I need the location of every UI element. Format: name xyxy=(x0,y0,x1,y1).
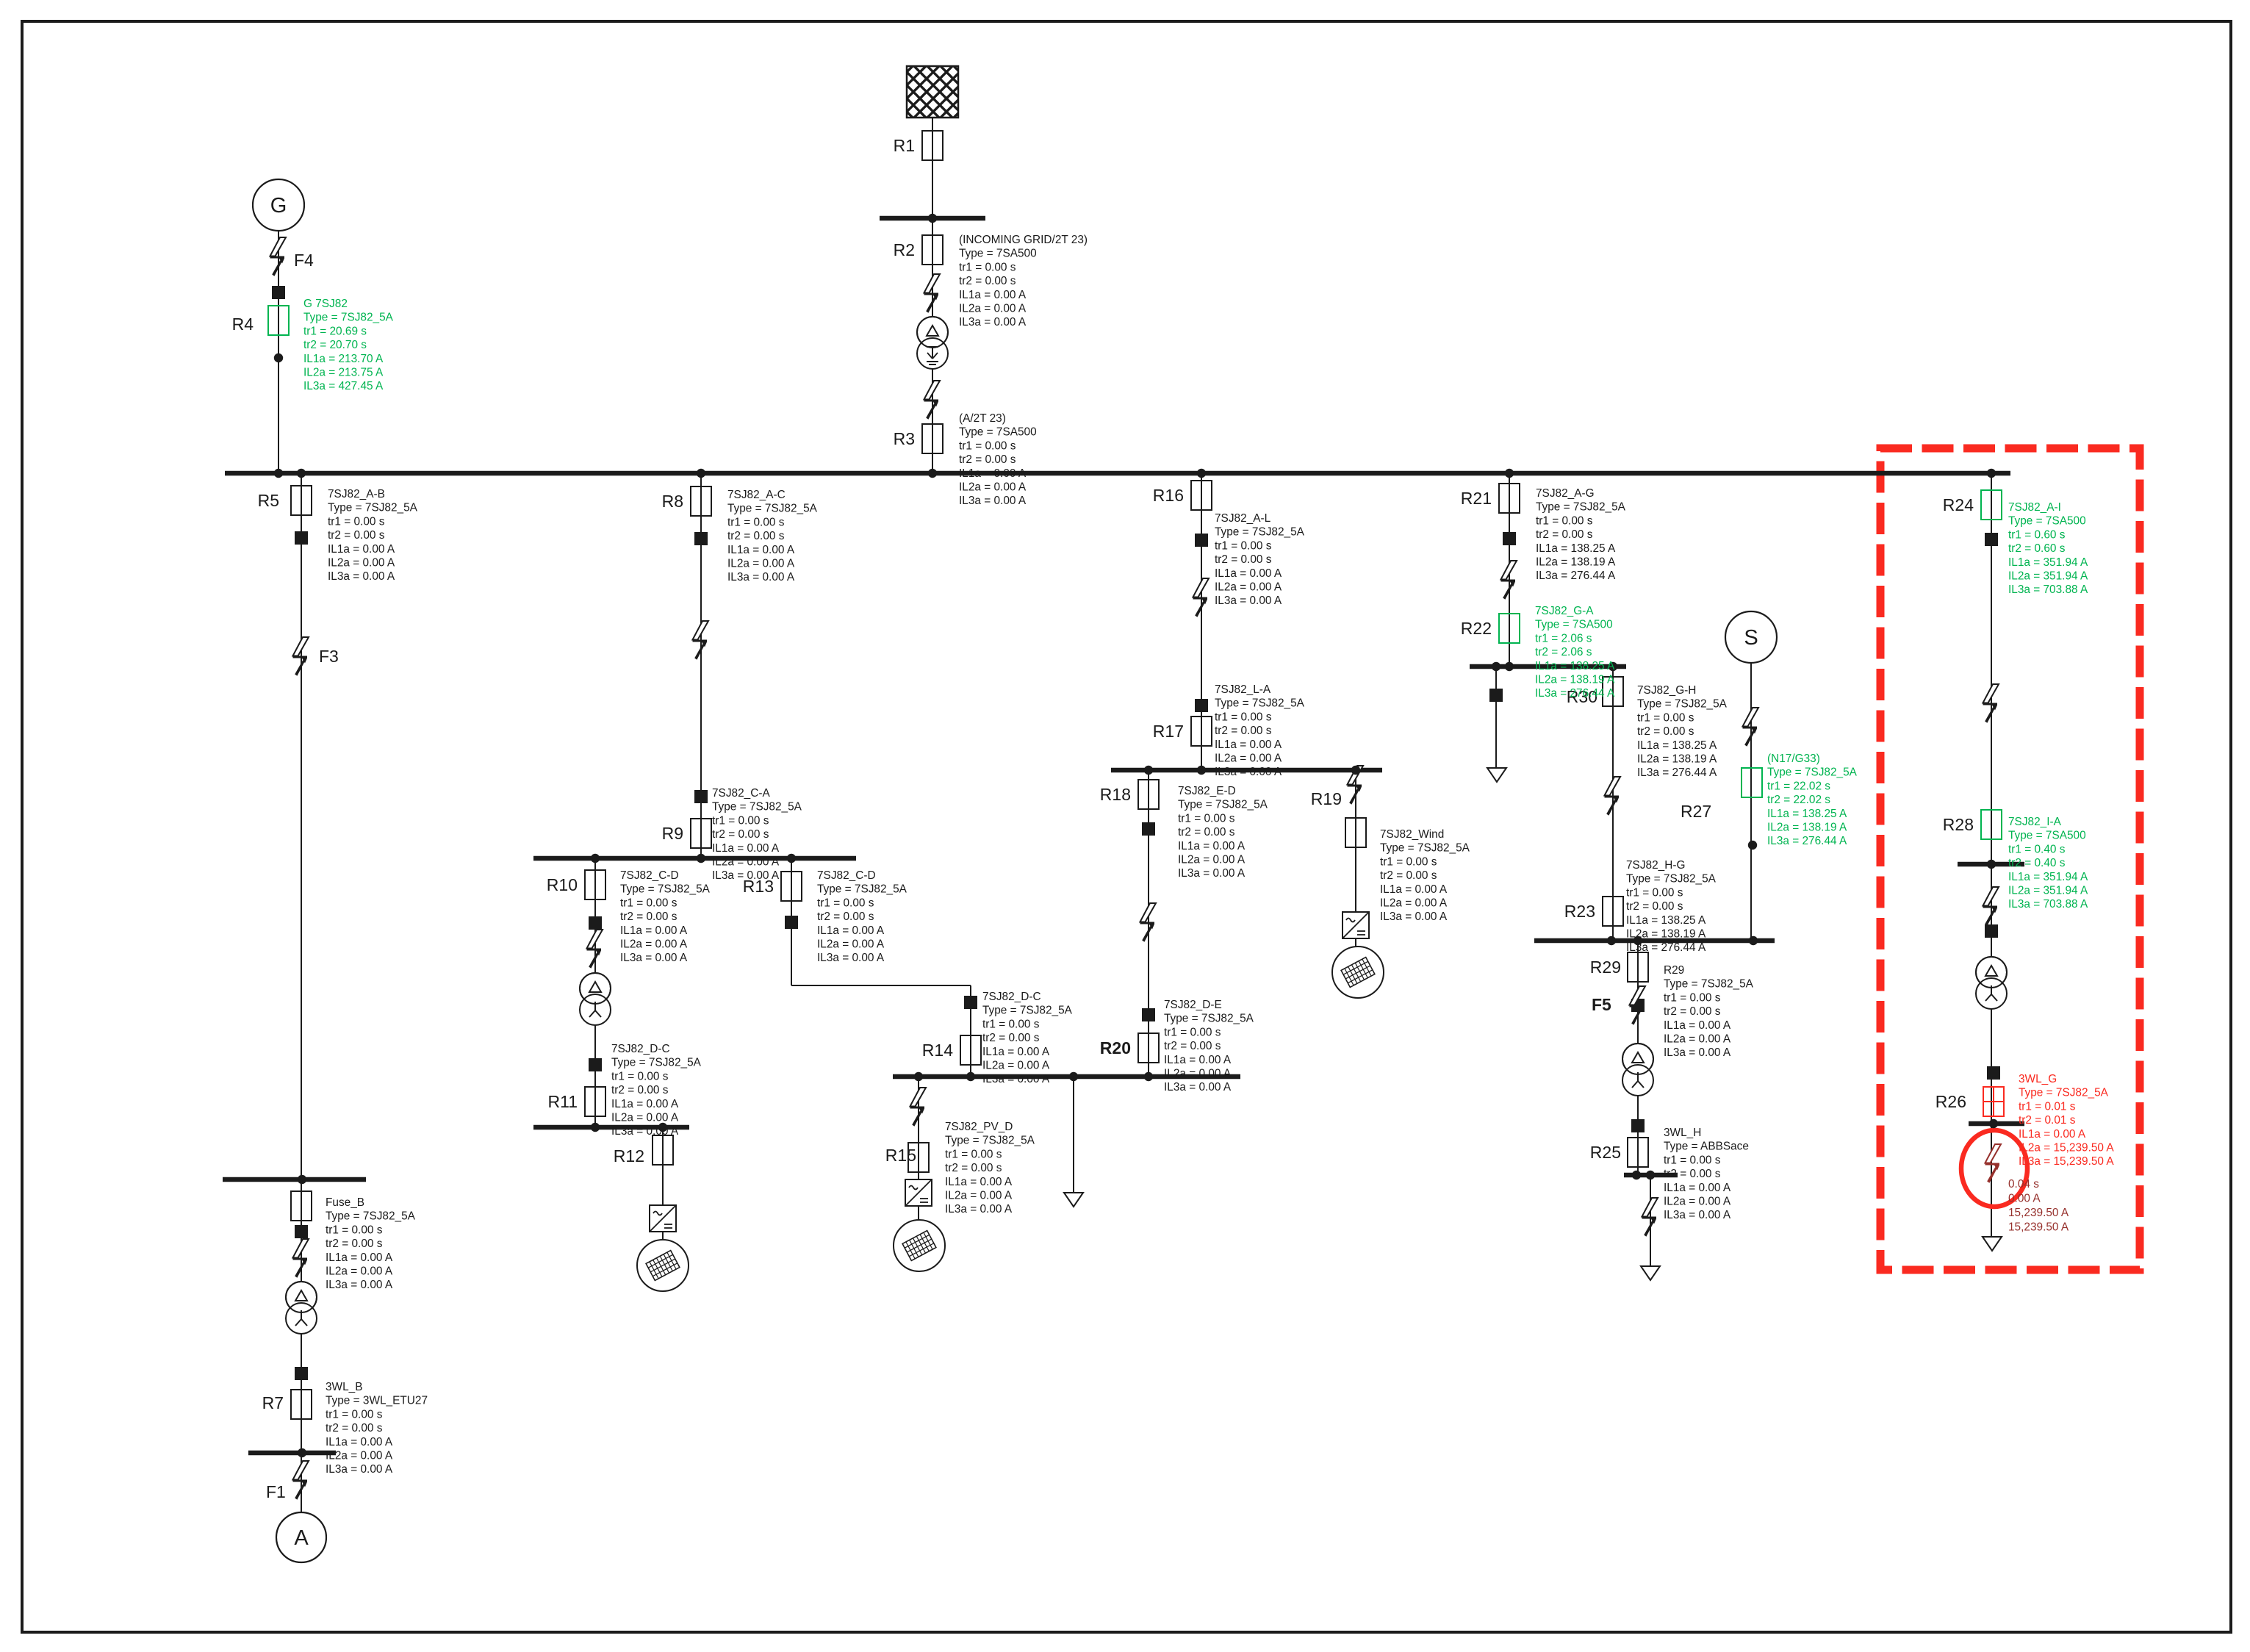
svg-text:tr2 = 0.00 s: tr2 = 0.00 s xyxy=(1637,725,1694,738)
svg-text:IL1a = 0.00 A: IL1a = 0.00 A xyxy=(817,924,885,937)
svg-text:R27: R27 xyxy=(1681,802,1711,821)
svg-text:IL1a = 138.25 A: IL1a = 138.25 A xyxy=(1637,739,1717,752)
svg-text:IL2a = 0.00 A: IL2a = 0.00 A xyxy=(1178,854,1246,866)
svg-text:R3: R3 xyxy=(894,429,915,448)
svg-text:7SJ82_A-G: 7SJ82_A-G xyxy=(1536,487,1595,500)
svg-text:R29: R29 xyxy=(1590,958,1621,977)
svg-text:S: S xyxy=(1744,626,1758,650)
svg-text:G 7SJ82: G 7SJ82 xyxy=(303,298,348,310)
svg-text:tr2 = 0.00 s: tr2 = 0.00 s xyxy=(611,1084,669,1096)
svg-text:IL3a = 0.00 A: IL3a = 0.00 A xyxy=(611,1125,679,1138)
svg-text:tr1 = 0.00 s: tr1 = 0.00 s xyxy=(326,1408,383,1421)
svg-text:7SJ82_D-E: 7SJ82_D-E xyxy=(1164,999,1222,1011)
svg-text:R10: R10 xyxy=(547,875,578,894)
svg-text:tr2 = 0.00 s: tr2 = 0.00 s xyxy=(326,1422,383,1434)
svg-text:tr2 = 0.00 s: tr2 = 0.00 s xyxy=(1664,1168,1721,1180)
svg-text:Type = 7SJ82_5A: Type = 7SJ82_5A xyxy=(1626,873,1717,886)
svg-text:tr1 = 0.00 s: tr1 = 0.00 s xyxy=(1664,1154,1721,1166)
svg-text:tr1 = 2.06 s: tr1 = 2.06 s xyxy=(1535,632,1592,644)
svg-text:IL2a = 0.00 A: IL2a = 0.00 A xyxy=(1664,1033,1731,1046)
svg-text:R11: R11 xyxy=(548,1092,578,1111)
svg-text:IL3a = 0.00 A: IL3a = 0.00 A xyxy=(326,1279,393,1291)
svg-text:tr1 = 0.00 s: tr1 = 0.00 s xyxy=(1664,991,1721,1004)
svg-text:Type = 7SJ82_5A: Type = 7SJ82_5A xyxy=(945,1135,1035,1147)
svg-text:Type = 7SA500: Type = 7SA500 xyxy=(2008,515,2086,528)
svg-text:IL1a = 0.00 A: IL1a = 0.00 A xyxy=(727,544,795,556)
svg-text:tr2 = 2.06 s: tr2 = 2.06 s xyxy=(1535,646,1592,658)
svg-text:IL3a = 0.00 A: IL3a = 0.00 A xyxy=(982,1073,1050,1085)
svg-text:IL1a = 138.25 A: IL1a = 138.25 A xyxy=(1535,660,1615,672)
svg-text:tr2 = 20.70 s: tr2 = 20.70 s xyxy=(303,339,367,351)
svg-text:7SJ82_A-B: 7SJ82_A-B xyxy=(328,488,385,500)
svg-text:tr1 = 22.02 s: tr1 = 22.02 s xyxy=(1767,780,1830,792)
svg-text:Type = 7SJ82_5A: Type = 7SJ82_5A xyxy=(1215,697,1305,710)
svg-text:7SJ82_A-I: 7SJ82_A-I xyxy=(2008,501,2061,514)
svg-text:IL2a = 138.19 A: IL2a = 138.19 A xyxy=(1626,928,1706,941)
svg-text:7SJ82_I-A: 7SJ82_I-A xyxy=(2008,816,2062,828)
svg-text:tr1 = 0.00 s: tr1 = 0.00 s xyxy=(328,515,385,528)
svg-text:IL2a = 351.94 A: IL2a = 351.94 A xyxy=(2008,570,2088,583)
svg-text:IL2a = 0.00 A: IL2a = 0.00 A xyxy=(1664,1196,1731,1208)
svg-text:IL3a = 427.45 A: IL3a = 427.45 A xyxy=(303,380,384,392)
svg-text:R18: R18 xyxy=(1100,785,1131,804)
svg-text:IL3a = 703.88 A: IL3a = 703.88 A xyxy=(2008,583,2088,596)
svg-text:(N17/G33): (N17/G33) xyxy=(1767,753,1820,765)
svg-text:IL2a = 0.00 A: IL2a = 0.00 A xyxy=(712,856,780,869)
svg-text:IL1a = 0.00 A: IL1a = 0.00 A xyxy=(945,1176,1013,1188)
svg-text:Type = 7SA500: Type = 7SA500 xyxy=(2008,830,2086,842)
svg-text:R26: R26 xyxy=(1935,1092,1966,1111)
svg-text:tr1 = 0.00 s: tr1 = 0.00 s xyxy=(326,1224,383,1236)
svg-text:IL3a = 0.00 A: IL3a = 0.00 A xyxy=(1664,1046,1731,1059)
svg-text:tr1 = 0.00 s: tr1 = 0.00 s xyxy=(1626,886,1683,899)
svg-text:IL2a = 213.75 A: IL2a = 213.75 A xyxy=(303,367,384,379)
svg-text:G: G xyxy=(270,194,287,218)
svg-text:tr1 = 20.69 s: tr1 = 20.69 s xyxy=(303,325,367,337)
svg-text:tr1 = 0.00 s: tr1 = 0.00 s xyxy=(611,1070,669,1082)
svg-text:(A/2T 23): (A/2T 23) xyxy=(959,412,1006,425)
svg-text:IL1a = 0.00 A: IL1a = 0.00 A xyxy=(611,1098,679,1110)
svg-text:IL3a = 0.00 A: IL3a = 0.00 A xyxy=(959,495,1027,507)
svg-text:(INCOMING GRID/2T 23): (INCOMING GRID/2T 23) xyxy=(959,234,1088,246)
svg-text:7SJ82_PV_D: 7SJ82_PV_D xyxy=(945,1121,1013,1133)
svg-text:3WL_H: 3WL_H xyxy=(1664,1127,1701,1139)
svg-text:IL2a = 0.00 A: IL2a = 0.00 A xyxy=(1215,753,1282,765)
svg-text:tr1 = 0.00 s: tr1 = 0.00 s xyxy=(959,261,1016,273)
svg-text:7SJ82_Wind: 7SJ82_Wind xyxy=(1380,828,1444,841)
svg-text:Type = 7SJ82_5A: Type = 7SJ82_5A xyxy=(1664,978,1754,991)
svg-text:IL3a = 276.44 A: IL3a = 276.44 A xyxy=(1535,687,1615,700)
svg-text:tr1 = 0.00 s: tr1 = 0.00 s xyxy=(727,516,785,528)
svg-text:IL1a = 0.00 A: IL1a = 0.00 A xyxy=(712,842,780,855)
svg-text:Type = 7SJ82_5A: Type = 7SJ82_5A xyxy=(1164,1013,1254,1025)
svg-text:IL3a = 276.44 A: IL3a = 276.44 A xyxy=(1767,835,1847,847)
svg-text:tr1 = 0.00 s: tr1 = 0.00 s xyxy=(1536,514,1593,527)
svg-text:R17: R17 xyxy=(1153,722,1184,741)
svg-text:tr2 = 0.00 s: tr2 = 0.00 s xyxy=(1664,1005,1721,1018)
svg-text:IL1a = 0.00 A: IL1a = 0.00 A xyxy=(1178,840,1246,852)
svg-text:tr1 = 0.00 s: tr1 = 0.00 s xyxy=(945,1148,1002,1160)
svg-text:R22: R22 xyxy=(1461,619,1492,638)
svg-text:Fuse_B: Fuse_B xyxy=(326,1196,364,1209)
svg-text:15,239.50 A: 15,239.50 A xyxy=(2008,1207,2069,1219)
svg-text:IL1a = 0.00 A: IL1a = 0.00 A xyxy=(959,289,1027,301)
svg-text:IL2a = 138.19 A: IL2a = 138.19 A xyxy=(1536,556,1616,569)
svg-text:R23: R23 xyxy=(1564,902,1595,921)
svg-text:Type = 7SJ82_5A: Type = 7SJ82_5A xyxy=(303,312,394,324)
svg-text:Type = 3WL_ETU27: Type = 3WL_ETU27 xyxy=(326,1395,428,1407)
svg-text:tr2 = 0.60 s: tr2 = 0.60 s xyxy=(2008,542,2066,555)
svg-text:tr2 = 0.00 s: tr2 = 0.00 s xyxy=(1215,725,1272,737)
svg-text:IL1a = 0.00 A: IL1a = 0.00 A xyxy=(328,543,395,556)
svg-text:R2: R2 xyxy=(894,240,915,259)
svg-text:IL3a = 0.00 A: IL3a = 0.00 A xyxy=(1178,867,1246,880)
svg-text:IL1a = 0.00 A: IL1a = 0.00 A xyxy=(2019,1128,2086,1141)
svg-text:IL1a = 0.00 A: IL1a = 0.00 A xyxy=(1664,1019,1731,1032)
svg-text:tr2 = 0.00 s: tr2 = 0.00 s xyxy=(817,911,874,923)
svg-text:IL1a = 138.25 A: IL1a = 138.25 A xyxy=(1626,914,1706,927)
svg-text:tr2 = 0.00 s: tr2 = 0.00 s xyxy=(620,911,677,923)
svg-text:Type = 7SJ82_5A: Type = 7SJ82_5A xyxy=(2019,1087,2109,1099)
svg-text:R7: R7 xyxy=(262,1393,284,1412)
svg-text:tr2 = 0.00 s: tr2 = 0.00 s xyxy=(945,1162,1002,1174)
svg-text:7SJ82_D-C: 7SJ82_D-C xyxy=(982,991,1041,1003)
svg-text:IL2a = 0.00 A: IL2a = 0.00 A xyxy=(1215,581,1282,594)
svg-text:IL1a = 0.00 A: IL1a = 0.00 A xyxy=(1664,1182,1731,1194)
svg-text:tr2 = 0.00 s: tr2 = 0.00 s xyxy=(326,1238,383,1250)
svg-text:Type = 7SJ82_5A: Type = 7SJ82_5A xyxy=(611,1057,702,1069)
svg-text:IL1a = 213.70 A: IL1a = 213.70 A xyxy=(303,353,384,365)
svg-text:tr1 = 0.00 s: tr1 = 0.00 s xyxy=(959,439,1016,452)
svg-text:IL2a = 0.00 A: IL2a = 0.00 A xyxy=(727,558,795,570)
svg-text:7SJ82_A-L: 7SJ82_A-L xyxy=(1215,512,1271,525)
svg-text:IL2a = 351.94 A: IL2a = 351.94 A xyxy=(2008,885,2088,897)
svg-text:IL1a = 0.00 A: IL1a = 0.00 A xyxy=(1164,1054,1232,1066)
svg-text:Type = 7SJ82_5A: Type = 7SJ82_5A xyxy=(328,502,418,514)
svg-text:IL3a = 276.44 A: IL3a = 276.44 A xyxy=(1536,570,1616,582)
svg-text:tr2 = 0.00 s: tr2 = 0.00 s xyxy=(1536,528,1593,541)
svg-text:IL2a = 138.19 A: IL2a = 138.19 A xyxy=(1767,822,1847,834)
svg-text:IL3a = 15,239.50 A: IL3a = 15,239.50 A xyxy=(2019,1155,2114,1168)
svg-text:R19: R19 xyxy=(1311,789,1342,808)
svg-text:Type = 7SJ82_5A: Type = 7SJ82_5A xyxy=(326,1210,416,1223)
svg-text:IL1a = 351.94 A: IL1a = 351.94 A xyxy=(2008,556,2088,569)
svg-text:Type = 7SJ82_5A: Type = 7SJ82_5A xyxy=(1178,799,1268,811)
svg-text:IL2a = 0.00 A: IL2a = 0.00 A xyxy=(620,938,688,951)
svg-text:IL1a = 138.25 A: IL1a = 138.25 A xyxy=(1536,542,1616,555)
svg-text:Type = 7SJ82_5A: Type = 7SJ82_5A xyxy=(1380,842,1470,855)
svg-text:Type = 7SJ82_5A: Type = 7SJ82_5A xyxy=(1215,526,1305,539)
svg-text:7SJ82_H-G: 7SJ82_H-G xyxy=(1626,859,1685,872)
svg-text:Type = 7SJ82_5A: Type = 7SJ82_5A xyxy=(727,503,818,515)
svg-text:7SJ82_L-A: 7SJ82_L-A xyxy=(1215,683,1271,696)
svg-text:IL3a = 276.44 A: IL3a = 276.44 A xyxy=(1626,941,1706,954)
svg-text:IL1a = 351.94 A: IL1a = 351.94 A xyxy=(2008,871,2088,883)
svg-text:IL2a = 15,239.50 A: IL2a = 15,239.50 A xyxy=(2019,1142,2114,1154)
svg-text:IL2a = 0.00 A: IL2a = 0.00 A xyxy=(982,1060,1050,1072)
svg-text:IL3a = 0.00 A: IL3a = 0.00 A xyxy=(959,316,1027,328)
svg-text:tr1 = 0.00 s: tr1 = 0.00 s xyxy=(817,897,874,909)
svg-text:IL3a = 0.00 A: IL3a = 0.00 A xyxy=(727,571,795,583)
svg-text:Type = 7SJ82_5A: Type = 7SJ82_5A xyxy=(1637,698,1728,711)
svg-text:tr1 = 0.00 s: tr1 = 0.00 s xyxy=(982,1018,1040,1030)
svg-text:IL3a = 0.00 A: IL3a = 0.00 A xyxy=(1664,1209,1731,1221)
svg-text:IL1a = 0.00 A: IL1a = 0.00 A xyxy=(1215,567,1282,580)
svg-text:15,239.50 A: 15,239.50 A xyxy=(2008,1221,2069,1234)
svg-text:7SJ82_C-D: 7SJ82_C-D xyxy=(817,869,876,882)
svg-text:IL3a = 0.00 A: IL3a = 0.00 A xyxy=(328,570,395,583)
svg-text:F3: F3 xyxy=(319,647,339,666)
svg-text:IL2a = 0.00 A: IL2a = 0.00 A xyxy=(1380,897,1448,910)
svg-text:IL1a = 0.00 A: IL1a = 0.00 A xyxy=(1215,739,1282,751)
svg-text:R1: R1 xyxy=(894,136,915,155)
svg-text:tr1 = 0.00 s: tr1 = 0.00 s xyxy=(1178,812,1235,825)
svg-text:IL2a = 0.00 A: IL2a = 0.00 A xyxy=(817,938,885,951)
svg-text:0.00 A: 0.00 A xyxy=(2008,1193,2041,1205)
svg-text:IL3a = 0.00 A: IL3a = 0.00 A xyxy=(945,1203,1013,1215)
svg-text:Type = 7SJ82_5A: Type = 7SJ82_5A xyxy=(712,801,802,814)
svg-text:IL1a = 0.00 A: IL1a = 0.00 A xyxy=(326,1251,393,1264)
svg-text:R24: R24 xyxy=(1943,495,1974,514)
svg-text:IL3a = 0.00 A: IL3a = 0.00 A xyxy=(1215,766,1282,778)
svg-text:IL3a = 703.88 A: IL3a = 703.88 A xyxy=(2008,898,2088,911)
svg-text:Type = 7SA500: Type = 7SA500 xyxy=(959,248,1037,260)
svg-text:Type = 7SA500: Type = 7SA500 xyxy=(959,426,1037,439)
svg-text:tr2 = 0.00 s: tr2 = 0.00 s xyxy=(959,453,1016,466)
svg-text:tr1 = 0.01 s: tr1 = 0.01 s xyxy=(2019,1100,2076,1113)
svg-text:IL2a = 0.00 A: IL2a = 0.00 A xyxy=(959,303,1027,315)
svg-text:IL1a = 0.00 A: IL1a = 0.00 A xyxy=(326,1436,393,1448)
svg-text:IL3a = 0.00 A: IL3a = 0.00 A xyxy=(1215,595,1282,607)
svg-text:Type = ABBSace: Type = ABBSace xyxy=(1664,1141,1749,1153)
svg-text:tr1 = 0.00 s: tr1 = 0.00 s xyxy=(1215,711,1272,723)
svg-text:tr2 = 0.40 s: tr2 = 0.40 s xyxy=(2008,857,2066,869)
svg-text:R8: R8 xyxy=(662,492,683,511)
svg-text:tr2 = 0.00 s: tr2 = 0.00 s xyxy=(1164,1040,1221,1052)
svg-text:tr1 = 0.40 s: tr1 = 0.40 s xyxy=(2008,843,2066,855)
svg-text:IL3a = 0.00 A: IL3a = 0.00 A xyxy=(1380,911,1448,923)
svg-text:Type = 7SJ82_5A: Type = 7SJ82_5A xyxy=(817,883,907,896)
svg-text:tr2 = 0.00 s: tr2 = 0.00 s xyxy=(982,1032,1040,1044)
svg-text:R28: R28 xyxy=(1943,815,1974,834)
svg-text:tr1 = 0.00 s: tr1 = 0.00 s xyxy=(1215,539,1272,552)
svg-text:7SJ82_G-H: 7SJ82_G-H xyxy=(1637,684,1696,697)
svg-text:7SJ82_D-C: 7SJ82_D-C xyxy=(611,1043,670,1055)
svg-text:IL3a = 0.00 A: IL3a = 0.00 A xyxy=(712,869,780,882)
svg-text:R20: R20 xyxy=(1100,1038,1131,1057)
svg-text:IL3a = 0.00 A: IL3a = 0.00 A xyxy=(817,952,885,964)
svg-text:tr1 = 0.00 s: tr1 = 0.00 s xyxy=(712,814,769,827)
svg-text:tr1 = 0.00 s: tr1 = 0.00 s xyxy=(1164,1026,1221,1038)
svg-text:R5: R5 xyxy=(258,491,279,510)
svg-text:A: A xyxy=(294,1526,309,1550)
svg-text:tr1 = 0.00 s: tr1 = 0.00 s xyxy=(620,897,677,909)
svg-text:3WL_B: 3WL_B xyxy=(326,1381,362,1393)
svg-text:IL3a = 0.00 A: IL3a = 0.00 A xyxy=(1164,1081,1232,1093)
svg-text:R29: R29 xyxy=(1664,964,1684,977)
svg-text:tr1 = 0.60 s: tr1 = 0.60 s xyxy=(2008,528,2066,541)
svg-text:0.04 s: 0.04 s xyxy=(2008,1178,2039,1190)
svg-text:IL2a = 0.00 A: IL2a = 0.00 A xyxy=(959,481,1027,494)
svg-text:F4: F4 xyxy=(294,251,314,270)
svg-text:IL2a = 138.19 A: IL2a = 138.19 A xyxy=(1535,674,1615,686)
svg-text:F5: F5 xyxy=(1592,995,1611,1014)
svg-text:R14: R14 xyxy=(922,1041,953,1060)
svg-text:IL2a = 0.00 A: IL2a = 0.00 A xyxy=(328,557,395,570)
svg-text:7SJ82_G-A: 7SJ82_G-A xyxy=(1535,605,1594,617)
svg-text:IL2a = 138.19 A: IL2a = 138.19 A xyxy=(1637,753,1717,766)
svg-text:R25: R25 xyxy=(1590,1143,1621,1162)
svg-text:Type = 7SJ82_5A: Type = 7SJ82_5A xyxy=(982,1005,1073,1017)
svg-text:Type = 7SJ82_5A: Type = 7SJ82_5A xyxy=(620,883,711,896)
svg-text:IL3a = 0.00 A: IL3a = 0.00 A xyxy=(620,952,688,964)
svg-text:7SJ82_C-D: 7SJ82_C-D xyxy=(620,869,679,882)
svg-text:7SJ82_E-D: 7SJ82_E-D xyxy=(1178,785,1236,797)
svg-text:tr1 = 0.00 s: tr1 = 0.00 s xyxy=(1380,855,1437,868)
svg-text:IL2a = 0.00 A: IL2a = 0.00 A xyxy=(326,1265,393,1278)
svg-text:tr2 = 0.00 s: tr2 = 0.00 s xyxy=(712,828,769,841)
svg-text:tr2 = 0.00 s: tr2 = 0.00 s xyxy=(1215,553,1272,566)
svg-text:Type = 7SJ82_5A: Type = 7SJ82_5A xyxy=(1536,501,1626,514)
svg-text:R4: R4 xyxy=(232,315,254,334)
svg-text:IL1a = 0.00 A: IL1a = 0.00 A xyxy=(1380,883,1448,896)
svg-text:IL2a = 0.00 A: IL2a = 0.00 A xyxy=(326,1450,393,1462)
svg-text:IL2a = 0.00 A: IL2a = 0.00 A xyxy=(945,1190,1013,1202)
svg-text:tr2 = 0.00 s: tr2 = 0.00 s xyxy=(1626,900,1683,913)
svg-text:IL1a = 138.25 A: IL1a = 138.25 A xyxy=(1767,808,1847,820)
svg-text:tr2 = 0.01 s: tr2 = 0.01 s xyxy=(2019,1114,2076,1127)
svg-text:R12: R12 xyxy=(614,1146,644,1166)
svg-text:R16: R16 xyxy=(1153,486,1184,505)
svg-text:R15: R15 xyxy=(885,1146,916,1165)
svg-text:IL1a = 0.00 A: IL1a = 0.00 A xyxy=(982,1046,1050,1058)
svg-text:F1: F1 xyxy=(266,1482,286,1501)
svg-text:Type = 7SJ82_5A: Type = 7SJ82_5A xyxy=(1767,766,1858,779)
svg-text:7SJ82_C-A: 7SJ82_C-A xyxy=(712,787,770,800)
svg-text:tr2 = 0.00 s: tr2 = 0.00 s xyxy=(959,275,1016,287)
svg-text:R9: R9 xyxy=(662,824,683,843)
svg-text:tr2 = 22.02 s: tr2 = 22.02 s xyxy=(1767,794,1830,806)
svg-text:IL1a = 0.00 A: IL1a = 0.00 A xyxy=(620,924,688,937)
svg-text:tr2 = 0.00 s: tr2 = 0.00 s xyxy=(1178,826,1235,838)
svg-text:Type = 7SA500: Type = 7SA500 xyxy=(1535,619,1613,631)
svg-text:tr2 = 0.00 s: tr2 = 0.00 s xyxy=(1380,869,1437,882)
svg-text:IL3a = 276.44 A: IL3a = 276.44 A xyxy=(1637,766,1717,779)
svg-text:7SJ82_A-C: 7SJ82_A-C xyxy=(727,489,786,501)
svg-text:IL2a = 0.00 A: IL2a = 0.00 A xyxy=(1164,1068,1232,1080)
svg-text:IL1a = 0.00 A: IL1a = 0.00 A xyxy=(959,467,1027,480)
svg-text:3WL_G: 3WL_G xyxy=(2019,1073,2057,1085)
svg-text:tr2 = 0.00 s: tr2 = 0.00 s xyxy=(328,529,385,542)
svg-text:tr2 = 0.00 s: tr2 = 0.00 s xyxy=(727,530,785,542)
svg-text:IL2a = 0.00 A: IL2a = 0.00 A xyxy=(611,1112,679,1124)
svg-text:tr1 = 0.00 s: tr1 = 0.00 s xyxy=(1637,711,1694,724)
svg-text:IL3a = 0.00 A: IL3a = 0.00 A xyxy=(326,1463,393,1476)
svg-text:R21: R21 xyxy=(1461,489,1492,508)
